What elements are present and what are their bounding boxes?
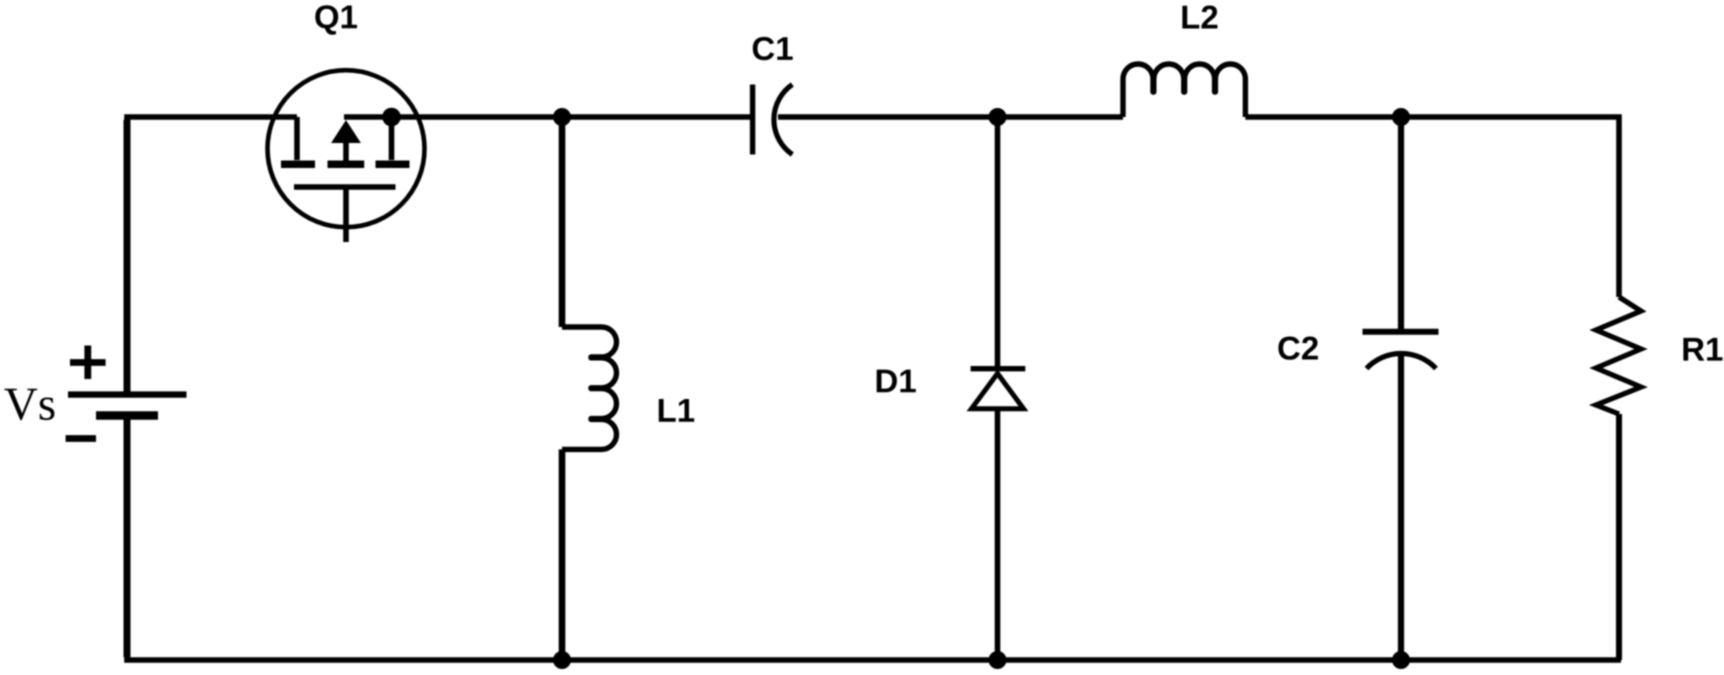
capacitor C2 [1363, 332, 1439, 369]
label C2 [1278, 337, 1318, 360]
label Vs [4, 389, 54, 421]
battery minus marking [66, 435, 96, 442]
junction dot top node D1 [989, 108, 1007, 126]
wire top rail: Q1 drain to C1 left plate [344, 114, 751, 120]
wire D1 branch [995, 117, 1001, 660]
label C1 [753, 37, 793, 60]
wire right rail lower part [1616, 414, 1622, 660]
wire top rail: L2 right lead to top-right corner, with right rail upper part [1245, 117, 1619, 297]
label R1 [1683, 338, 1722, 361]
wire top rail: C1 to L2 left lead [778, 114, 1123, 120]
diode D1 [971, 369, 1026, 409]
battery plus marking [70, 346, 106, 380]
inductor L1 [559, 117, 566, 660]
transistor Q1 [268, 70, 425, 242]
label L1 [659, 399, 694, 422]
junction dot top node C2 [1392, 108, 1410, 126]
junction dot bottom node C2 [1392, 651, 1410, 669]
label Q1 [315, 5, 357, 35]
label D1 [877, 370, 916, 393]
junction dot Q1 drain [382, 108, 401, 127]
junction dot bottom node D1 [989, 651, 1007, 669]
voltage source Vs battery plates [68, 395, 187, 416]
wire left rail lower part and bottom rail [127, 419, 1621, 660]
inductor L2 [1123, 64, 1245, 117]
capacitor C1 [753, 85, 793, 155]
wire top rail: left corner to Q1 source, with left rail upper part [127, 117, 297, 392]
junction dot bottom node L1 [553, 651, 571, 669]
junction dot top node L1 [553, 108, 571, 126]
wire C2 branch [1398, 117, 1404, 660]
label L2 [1182, 6, 1217, 29]
resistor R1 [1596, 297, 1641, 414]
